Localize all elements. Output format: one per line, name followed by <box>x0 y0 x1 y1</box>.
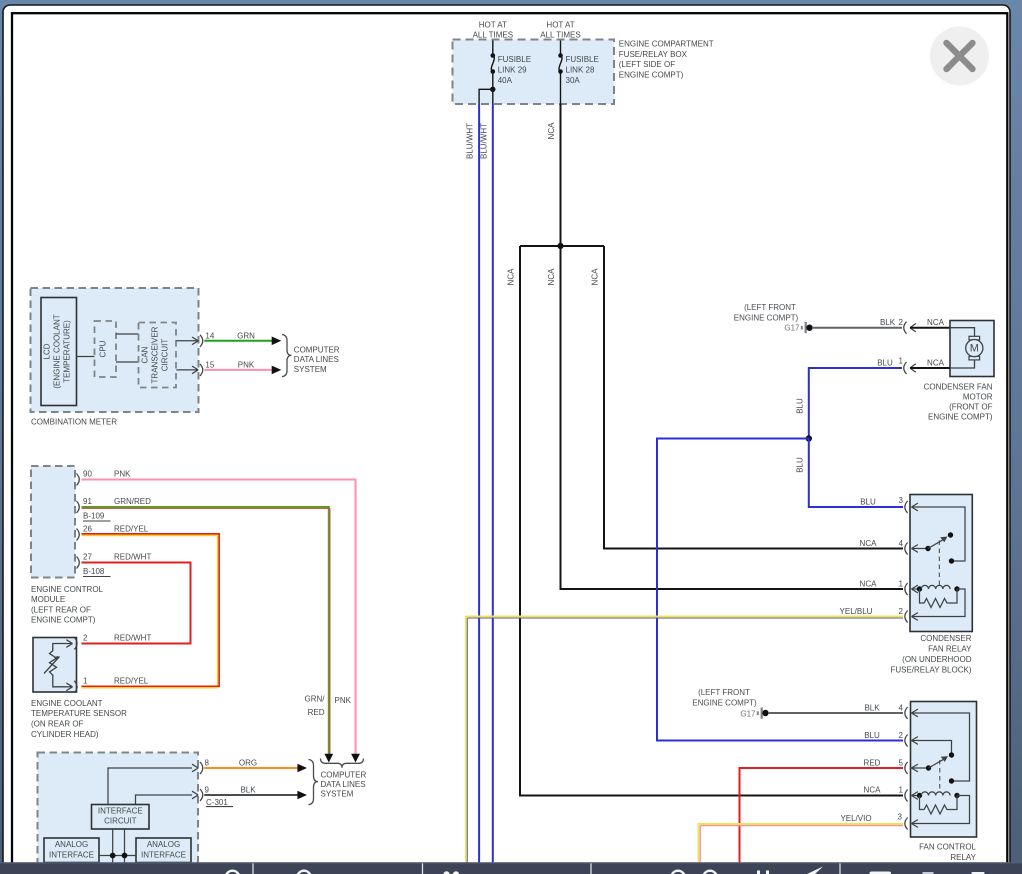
wire BLU/WHT right branch <box>492 89 494 104</box>
svg-text:BLU: BLU <box>795 457 804 473</box>
svg-text:TRANSCEIVER: TRANSCEIVER <box>151 326 160 383</box>
svg-text:ENGINE COMPARTMENT: ENGINE COMPARTMENT <box>619 39 714 48</box>
svg-text:RED: RED <box>864 759 881 768</box>
svg-text:4: 4 <box>899 539 904 548</box>
analog interface block (right) <box>136 838 191 863</box>
svg-text:BLU: BLU <box>877 359 893 368</box>
condenser fan motor box <box>950 321 994 377</box>
pin 27 <box>77 557 80 569</box>
svg-text:B-108: B-108 <box>83 567 105 576</box>
svg-text:FUSE/RELAY BOX: FUSE/RELAY BOX <box>619 50 688 59</box>
wire NCA into motor pin 2 <box>910 327 950 329</box>
svg-text:90: 90 <box>83 470 92 479</box>
toolbar icon tops <box>226 871 240 874</box>
wire NCA from fusible link 28 <box>560 104 562 246</box>
interface circuit block <box>92 805 150 830</box>
svg-text:CONDENSER: CONDENSER <box>920 634 971 643</box>
wire interface to analog interfaces <box>99 829 136 863</box>
wire YEL/VIO <box>699 824 904 863</box>
fuse/relay box F1 (engine compartment) <box>453 40 615 105</box>
condenser fan relay box <box>910 495 972 632</box>
svg-text:1: 1 <box>899 580 904 589</box>
svg-text:RED/WHT: RED/WHT <box>114 553 151 562</box>
pin 8 <box>192 764 198 772</box>
pin 3 <box>905 501 908 513</box>
svg-text:G17: G17 <box>740 709 756 718</box>
pin 90 <box>77 474 80 486</box>
motor M1 symbol <box>950 328 975 337</box>
wire BLK to motor pin 2 <box>812 327 902 329</box>
svg-text:14: 14 <box>205 331 214 340</box>
svg-text:TEMPERATURE SENSOR: TEMPERATURE SENSOR <box>31 709 127 718</box>
svg-text:FAN CONTROL: FAN CONTROL <box>919 843 976 852</box>
svg-text:NCA: NCA <box>590 268 599 286</box>
wire LCD to CPU <box>77 356 95 358</box>
wire RED/YEL pin 26 to sensor pin 1 <box>82 534 220 686</box>
mechanical link (dashed) <box>939 760 941 792</box>
wire ORG <box>204 767 297 769</box>
svg-text:TEMPERATURE): TEMPERATURE) <box>63 320 72 383</box>
arrow GRN/RED into data lines <box>324 754 333 763</box>
svg-text:CIRCUIT: CIRCUIT <box>104 817 137 826</box>
svg-text:RED/YEL: RED/YEL <box>114 524 149 533</box>
svg-text:DATA LINES: DATA LINES <box>294 355 339 364</box>
svg-text:40A: 40A <box>498 76 513 85</box>
fusible link 29 40A <box>492 41 494 56</box>
svg-text:2: 2 <box>83 634 88 643</box>
pin 91 <box>77 501 80 513</box>
svg-text:(FRONT OF: (FRONT OF <box>949 403 993 412</box>
pin 15 <box>176 369 198 371</box>
engine control module box <box>31 466 75 578</box>
wire PNK <box>204 369 272 371</box>
svg-text:GRN: GRN <box>237 331 255 340</box>
mechanical link (dashed) <box>938 541 940 586</box>
svg-text:3: 3 <box>899 496 904 505</box>
thermistor RT1 <box>50 651 57 676</box>
svg-text:B-109: B-109 <box>83 511 105 520</box>
svg-text:ANALOG: ANALOG <box>55 840 88 849</box>
svg-text:LCD: LCD <box>43 343 52 359</box>
fan control relay box <box>911 702 977 838</box>
svg-text:FUSIBLE: FUSIBLE <box>498 55 531 64</box>
svg-text:(ON REAR OF: (ON REAR OF <box>31 720 84 729</box>
node: fusible link 29 output junction <box>490 87 495 92</box>
wire RED <box>740 768 904 863</box>
svg-text:4: 4 <box>899 704 904 713</box>
svg-text:ENGINE COMPT): ENGINE COMPT) <box>734 313 799 322</box>
wire PNK pin 90 <box>82 480 356 755</box>
svg-text:GRN/RED: GRN/RED <box>114 497 151 506</box>
pin 1 <box>66 686 73 688</box>
wire NCA into motor pin 1 <box>910 367 950 369</box>
svg-text:ENGINE COMPT): ENGINE COMPT) <box>928 413 993 422</box>
svg-text:COMPUTER: COMPUTER <box>294 345 340 354</box>
svg-text:26: 26 <box>83 524 92 533</box>
node: computer data lines system (bottom brace) <box>309 760 319 805</box>
svg-text:PNK: PNK <box>335 696 352 705</box>
svg-text:RED/WHT: RED/WHT <box>114 634 151 643</box>
wire NCA to condenser fan relay pin 1 <box>561 246 904 589</box>
CAN transceiver circuit block <box>139 323 177 388</box>
connector pin 2 (in-line) <box>904 322 907 334</box>
svg-text:FUSIBLE: FUSIBLE <box>566 55 599 64</box>
svg-text:ALL TIMES: ALL TIMES <box>540 31 580 40</box>
svg-text:HOT AT: HOT AT <box>546 21 574 30</box>
pin 2 <box>905 611 908 623</box>
svg-text:9: 9 <box>205 786 210 795</box>
internal wire pin 4 to lower contact <box>912 713 970 781</box>
internal wire pin 2 to upper contact <box>912 741 952 753</box>
svg-text:NCA: NCA <box>860 580 878 589</box>
arrow PNK into data lines <box>351 754 360 763</box>
svg-text:YEL/VIO: YEL/VIO <box>840 814 871 823</box>
wire BLU/WHT left branch <box>479 89 493 104</box>
svg-text:MOTOR: MOTOR <box>963 393 993 402</box>
node: BLU junction <box>806 435 812 441</box>
combination meter box <box>31 288 199 412</box>
svg-text:DATA LINES: DATA LINES <box>321 780 366 789</box>
wire CPU to CAN (lower) <box>116 361 139 363</box>
svg-text:NCA: NCA <box>507 268 516 286</box>
svg-text:BLU: BLU <box>860 498 876 507</box>
svg-text:PNK: PNK <box>238 360 255 369</box>
CPU block <box>95 321 117 377</box>
svg-text:ENGINE COMPT): ENGINE COMPT) <box>692 698 757 707</box>
svg-text:ALL TIMES: ALL TIMES <box>473 31 513 40</box>
switch arm SW1 <box>912 548 929 550</box>
svg-text:BLU/WHT: BLU/WHT <box>465 123 474 159</box>
connector pin 1 (in-line) <box>904 362 907 374</box>
wire RED/WHT pin 27 to sensor pin 2 <box>82 563 191 644</box>
svg-text:FUSE/RELAY BLOCK): FUSE/RELAY BLOCK) <box>890 666 971 675</box>
svg-text:ENGINE COOLANT: ENGINE COOLANT <box>31 699 103 708</box>
svg-text:G17: G17 <box>784 323 800 332</box>
svg-text:BLU/WHT: BLU/WHT <box>479 123 488 159</box>
svg-text:(LEFT REAR OF: (LEFT REAR OF <box>31 605 91 614</box>
wire interface to pin 8 <box>108 768 192 805</box>
svg-text:CIRCUIT: CIRCUIT <box>161 339 170 372</box>
pin 5 <box>905 762 908 774</box>
svg-text:1: 1 <box>899 357 904 366</box>
svg-text:CONDENSER FAN: CONDENSER FAN <box>924 383 993 392</box>
pin 4 <box>905 543 908 555</box>
svg-text:RELAY: RELAY <box>950 853 976 862</box>
svg-text:ENGINE COMPT): ENGINE COMPT) <box>31 616 96 625</box>
svg-text:ANALOG: ANALOG <box>147 840 180 849</box>
wire BLU from motor pin 1 <box>809 368 902 437</box>
svg-text:BLU: BLU <box>864 731 880 740</box>
svg-text:SYSTEM: SYSTEM <box>294 365 327 374</box>
svg-text:C-301: C-301 <box>206 798 228 807</box>
svg-text:LINK 29: LINK 29 <box>498 66 527 75</box>
svg-text:FAN RELAY: FAN RELAY <box>928 645 972 654</box>
svg-text:M: M <box>970 342 979 354</box>
close button <box>930 27 989 86</box>
svg-text:BLK: BLK <box>880 318 896 327</box>
wire NCA to condenser fan relay pin 4 <box>604 246 903 549</box>
wire BLU branch to fan control relay pin 2 <box>657 439 903 741</box>
svg-text:1: 1 <box>899 786 904 795</box>
svg-text:CPU: CPU <box>99 340 108 357</box>
svg-text:BLU: BLU <box>795 398 804 414</box>
wire GRN/RED pin 91 <box>82 507 329 755</box>
fusible link 28 30A <box>560 41 562 56</box>
engine coolant temperature sensor box <box>33 638 77 693</box>
svg-text:91: 91 <box>83 497 92 506</box>
svg-text:(LEFT FRONT: (LEFT FRONT <box>744 303 796 312</box>
coil shunt resistor <box>920 796 958 815</box>
wire CPU to CAN (upper) <box>116 333 139 335</box>
svg-text:ENGINE COMPT): ENGINE COMPT) <box>619 70 684 79</box>
svg-text:3: 3 <box>898 813 903 822</box>
switch arm SW2 <box>912 767 929 769</box>
svg-text:YEL/BLU: YEL/BLU <box>840 607 873 616</box>
svg-text:NCA: NCA <box>927 359 945 368</box>
interface module box <box>38 753 199 871</box>
svg-text:LINK 28: LINK 28 <box>566 66 595 75</box>
pin 1 <box>905 790 908 802</box>
wire BLU to condenser fan relay pin 3 <box>809 439 903 508</box>
pin 2 <box>905 735 908 747</box>
svg-text:2: 2 <box>899 318 904 327</box>
svg-text:MODULE: MODULE <box>31 595 65 604</box>
svg-text:SYSTEM: SYSTEM <box>321 790 354 799</box>
bottom toolbar <box>0 862 1022 874</box>
svg-text:COMBINATION METER: COMBINATION METER <box>31 417 117 426</box>
LCD block <box>41 298 77 406</box>
svg-text:BLK: BLK <box>240 786 256 795</box>
svg-text:ORG: ORG <box>239 759 257 768</box>
svg-text:RED: RED <box>308 708 325 717</box>
svg-text:INTERFACE: INTERFACE <box>98 807 143 816</box>
svg-text:NCA: NCA <box>547 122 556 140</box>
wire GRN <box>204 340 272 342</box>
svg-text:2: 2 <box>899 607 904 616</box>
svg-text:30A: 30A <box>566 76 581 85</box>
pin 26 <box>77 529 80 541</box>
coil shunt resistor <box>920 589 958 608</box>
relay coil K1 <box>912 588 920 590</box>
svg-text:CYLINDER HEAD): CYLINDER HEAD) <box>31 730 99 739</box>
svg-text:(LEFT FRONT: (LEFT FRONT <box>698 688 750 697</box>
svg-text:8: 8 <box>205 759 210 768</box>
svg-text:COMPUTER: COMPUTER <box>321 771 367 780</box>
svg-text:NCA: NCA <box>864 786 882 795</box>
svg-text:(ENGINE COOLANT: (ENGINE COOLANT <box>53 314 62 388</box>
svg-text:1: 1 <box>83 677 88 686</box>
svg-text:CAN: CAN <box>141 346 150 363</box>
internal wire pin 3 to contact <box>912 507 966 561</box>
svg-text:NCA: NCA <box>860 539 878 548</box>
pin 2 <box>66 643 73 645</box>
svg-text:NCA: NCA <box>547 268 556 286</box>
node: NCA junction <box>520 245 604 247</box>
svg-text:(LEFT SIDE OF: (LEFT SIDE OF <box>619 60 675 69</box>
wire BLK (pin 9) <box>204 794 297 796</box>
wire BLK to fan control relay pin 4 <box>768 712 903 714</box>
svg-text:2: 2 <box>899 731 904 740</box>
svg-text:ENGINE CONTROL: ENGINE CONTROL <box>31 585 104 594</box>
sensor internal lead to pin 1 <box>53 675 66 687</box>
pin 1 <box>905 583 908 595</box>
svg-text:HOT AT: HOT AT <box>479 21 507 30</box>
pin 4 <box>905 707 908 719</box>
node: computer data lines system (meter) <box>282 335 292 377</box>
svg-text:BLK: BLK <box>864 704 880 713</box>
svg-text:NCA: NCA <box>927 318 945 327</box>
svg-text:15: 15 <box>205 360 214 369</box>
relay coil K2 <box>912 795 920 797</box>
contact (normally open) <box>948 532 953 537</box>
wire YEL/BLU <box>466 617 903 864</box>
analog interface block (left) <box>44 838 99 863</box>
svg-text:PNK: PNK <box>114 470 131 479</box>
svg-text:(ON UNDERHOOD: (ON UNDERHOOD <box>902 655 972 664</box>
svg-text:INTERFACE: INTERFACE <box>141 850 186 859</box>
pin 9 <box>192 791 198 799</box>
node junction dots <box>110 853 116 859</box>
pin 3 <box>905 818 908 830</box>
node: computer data lines system (under-brace) <box>321 759 364 768</box>
sensor internal lead to pin 2 <box>53 644 66 652</box>
svg-text:RED/YEL: RED/YEL <box>114 677 149 686</box>
pin 14 <box>176 340 198 342</box>
svg-text:5: 5 <box>899 759 904 768</box>
svg-text:GRN/: GRN/ <box>305 695 326 704</box>
wire NCA to fan control relay pin 1 <box>520 246 903 796</box>
svg-text:INTERFACE: INTERFACE <box>49 850 94 859</box>
wire interface to pin 9 <box>136 795 193 805</box>
toolbar dividers <box>253 863 840 874</box>
svg-text:27: 27 <box>83 553 92 562</box>
